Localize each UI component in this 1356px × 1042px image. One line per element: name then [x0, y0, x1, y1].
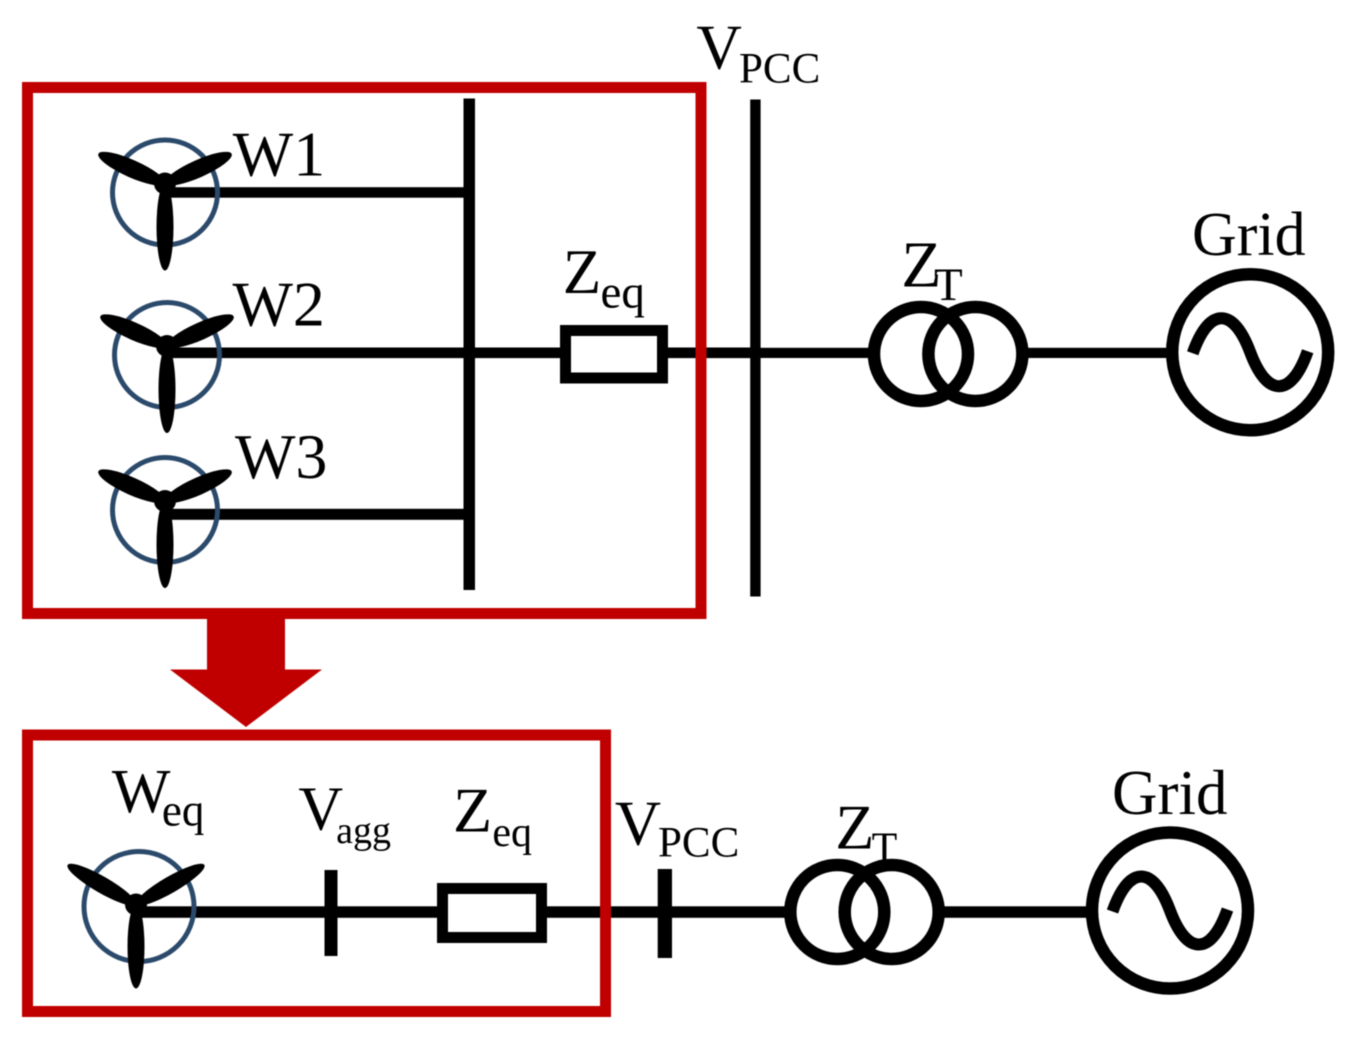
- wire collector bus to Zeq: [469, 348, 566, 359]
- wire PCC bus to transformer ZT: [755, 348, 872, 358]
- wire W1 to collector bus: [165, 187, 470, 198]
- collector bus: [464, 99, 476, 591]
- aggregation boundary box (red), top: [28, 88, 702, 614]
- wire W2 to collector bus: [167, 348, 470, 359]
- svg-text:W2: W2: [233, 268, 325, 339]
- svg-text:eq: eq: [601, 267, 645, 319]
- svg-text:Z: Z: [835, 791, 874, 862]
- grid source (top): [1172, 274, 1328, 430]
- grid source (bottom): [1092, 833, 1248, 989]
- transformer ZT (bottom): [790, 865, 938, 959]
- svg-text:V: V: [615, 787, 661, 858]
- impedance Zeq (top): [566, 331, 663, 379]
- aggregation arrow (red): [170, 613, 322, 727]
- wind turbine W2: [97, 303, 237, 434]
- svg-text:Z: Z: [563, 237, 601, 307]
- wind turbine W1: [95, 140, 235, 271]
- equivalent model box (red), bottom: [28, 735, 606, 1012]
- PCC bus: [750, 100, 760, 597]
- svg-text:W3: W3: [235, 421, 327, 492]
- wire Zeq to PCC bus: [662, 348, 756, 359]
- svg-text:Z: Z: [453, 775, 492, 846]
- impedance Zeq (bottom): [443, 889, 542, 938]
- svg-text:W1: W1: [233, 118, 325, 189]
- svg-text:eq: eq: [162, 786, 204, 836]
- node Vagg tick: [325, 870, 338, 956]
- svg-text:PCC: PCC: [739, 45, 820, 92]
- svg-text:eq: eq: [492, 810, 532, 856]
- wire Weq through Vagg and Zeq to transformer (bottom main run): [136, 906, 790, 918]
- transformer ZT (top): [874, 307, 1022, 401]
- node VPCC tick: [658, 869, 672, 958]
- wire W3 to collector bus: [165, 509, 470, 520]
- wind turbine W3: [95, 458, 235, 589]
- wire transformer to grid source (top): [1026, 348, 1168, 358]
- svg-text:Grid: Grid: [1112, 758, 1227, 828]
- wire transformer to grid source (bottom): [941, 906, 1087, 918]
- svg-text:T: T: [934, 259, 963, 311]
- svg-text:Grid: Grid: [1192, 201, 1306, 269]
- svg-text:T: T: [872, 826, 898, 872]
- svg-text:V: V: [696, 12, 742, 82]
- svg-text:agg: agg: [336, 810, 391, 852]
- wind turbine Weq: [63, 852, 208, 989]
- svg-text:PCC: PCC: [658, 820, 739, 867]
